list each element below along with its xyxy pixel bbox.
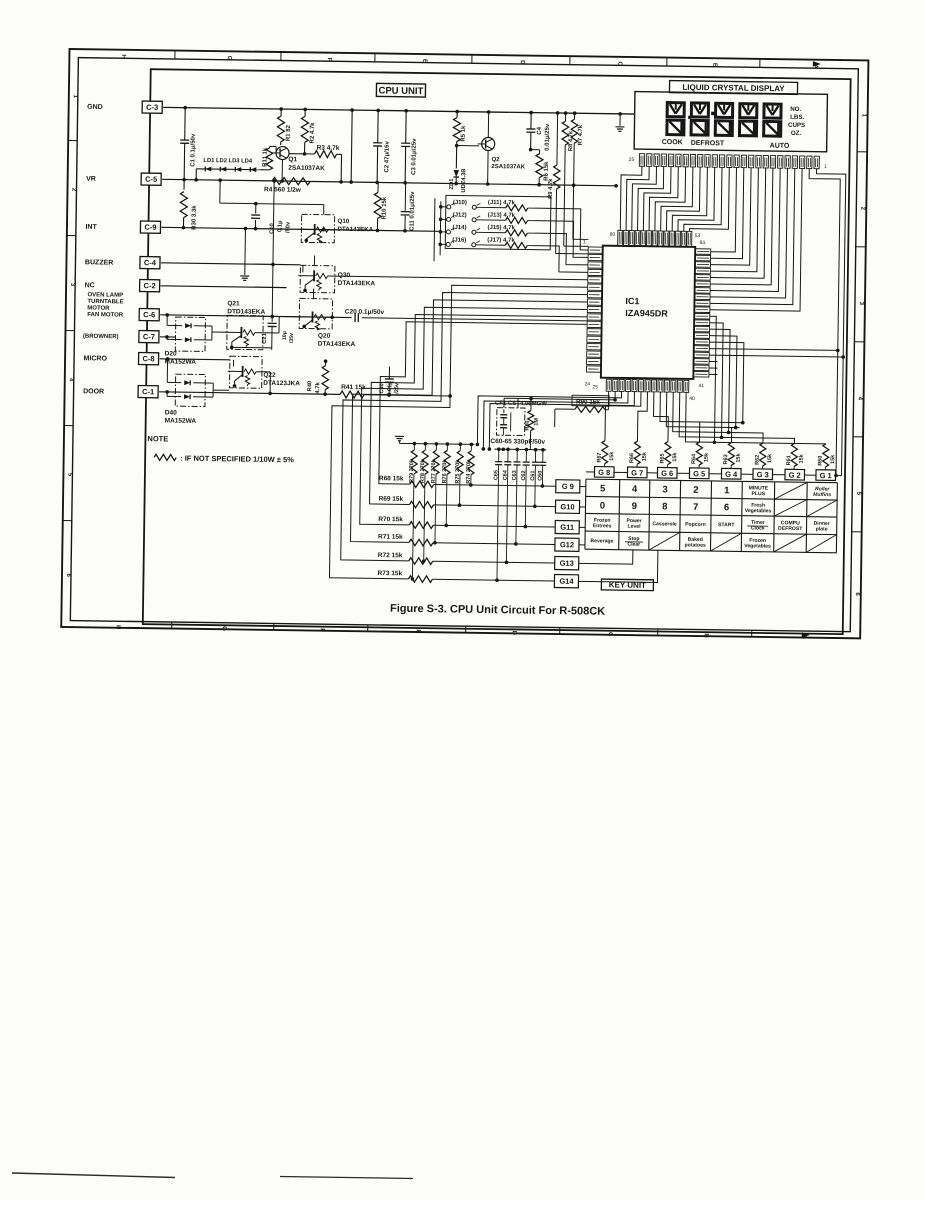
svg-text:G 6: G 6 — [661, 469, 673, 478]
svg-text:(J11) 4.7k: (J11) 4.7k — [488, 200, 516, 206]
svg-text:DTD143EKA: DTD143EKA — [227, 308, 265, 316]
svg-text:AUTO: AUTO — [770, 143, 790, 150]
svg-text:plate: plate — [816, 526, 828, 532]
svg-text:FAN MOTOR: FAN MOTOR — [87, 312, 124, 319]
svg-text:25: 25 — [592, 385, 598, 391]
svg-text:1: 1 — [724, 485, 730, 496]
svg-text:R8 4.7k: R8 4.7k — [568, 130, 574, 151]
svg-text:1: 1 — [824, 164, 827, 170]
svg-text:C4: C4 — [537, 126, 543, 134]
svg-text:R68 15k: R68 15k — [379, 475, 404, 482]
svg-text:PLUS: PLUS — [751, 491, 765, 497]
svg-text:1M: 1M — [534, 418, 540, 426]
svg-text:CPU UNIT: CPU UNIT — [378, 85, 423, 97]
svg-text:G 4: G 4 — [725, 470, 738, 479]
svg-text:R5 1k: R5 1k — [461, 125, 467, 142]
svg-text:C1 0.1μ/50v: C1 0.1μ/50v — [190, 133, 196, 167]
svg-text:G: G — [221, 626, 227, 631]
svg-text:C63: C63 — [512, 470, 518, 480]
svg-text:15k: 15k — [830, 454, 836, 464]
svg-text:G14: G14 — [559, 577, 574, 586]
svg-text:F: F — [326, 58, 332, 62]
svg-text:15k: 15k — [704, 452, 710, 462]
svg-text:Vegetables: Vegetables — [745, 508, 772, 514]
svg-text:NC: NC — [85, 282, 95, 289]
svg-text:41: 41 — [698, 383, 704, 389]
svg-text:TURNTABLE: TURNTABLE — [87, 299, 123, 306]
svg-text:Beverage: Beverage — [590, 538, 613, 544]
svg-text:LBS.: LBS. — [790, 114, 804, 121]
svg-text:0.1μ: 0.1μ — [277, 220, 283, 232]
svg-text:(J10): (J10) — [453, 200, 467, 206]
svg-text:(J13) 4.7k: (J13) 4.7k — [488, 212, 516, 218]
svg-text:9: 9 — [632, 501, 637, 512]
svg-text:G 2: G 2 — [789, 471, 801, 480]
svg-text:R10 15k: R10 15k — [382, 196, 388, 219]
svg-text:D: D — [511, 631, 517, 636]
svg-text:D20: D20 — [165, 350, 177, 357]
svg-text:CUPS: CUPS — [788, 122, 805, 129]
svg-text:C62: C62 — [521, 470, 527, 480]
svg-text:R60: R60 — [818, 456, 824, 466]
svg-text:C10: C10 — [269, 223, 275, 234]
svg-text:C-1: C-1 — [142, 387, 154, 396]
svg-text:G 5: G 5 — [693, 469, 705, 478]
svg-text:R78 270k: R78 270k — [420, 458, 426, 483]
svg-text:(BROWNER): (BROWNER) — [83, 334, 119, 341]
svg-text:R41 15k: R41 15k — [341, 384, 366, 391]
svg-text:G: G — [226, 56, 232, 61]
svg-text:/35v: /35v — [289, 333, 295, 343]
svg-text:7: 7 — [693, 502, 698, 513]
svg-text:IC1: IC1 — [625, 296, 639, 306]
svg-text:2: 2 — [693, 485, 698, 496]
svg-text:C60-65 330pF/50v: C60-65 330pF/50v — [490, 438, 545, 446]
svg-text:R71 15k: R71 15k — [378, 533, 403, 540]
svg-text:0.01μ/25v: 0.01μ/25v — [545, 123, 551, 151]
svg-text:C64: C64 — [503, 469, 509, 480]
svg-text:Clear: Clear — [627, 542, 640, 548]
svg-text:60: 60 — [610, 232, 616, 238]
svg-text:R77 270k: R77 270k — [431, 458, 437, 483]
svg-text:ZD1: ZD1 — [449, 178, 455, 190]
svg-text:BUZZER: BUZZER — [85, 259, 113, 266]
svg-text:START: START — [718, 522, 736, 528]
svg-text:R1 82: R1 82 — [286, 124, 292, 141]
svg-text:potatoes: potatoes — [685, 542, 706, 548]
svg-text:R64: R64 — [691, 453, 697, 464]
svg-text:VR: VR — [86, 176, 96, 183]
svg-text:IZA945DR: IZA945DR — [625, 308, 668, 319]
svg-text:E: E — [421, 59, 427, 63]
svg-text:C-3: C-3 — [146, 103, 158, 112]
svg-text:R74 270k: R74 270k — [466, 459, 472, 484]
svg-text:Q30: Q30 — [338, 272, 351, 279]
svg-text:/25v: /25v — [394, 382, 400, 394]
svg-text:R4 560 1/2w: R4 560 1/2w — [264, 186, 302, 194]
svg-text:15k: 15k — [736, 452, 742, 462]
svg-text:R6 15k: R6 15k — [544, 161, 550, 181]
svg-text:Q21: Q21 — [227, 300, 240, 307]
svg-text:B: B — [711, 63, 717, 68]
svg-text:(J12): (J12) — [453, 212, 467, 218]
svg-text:53: 53 — [695, 233, 701, 239]
svg-text:UDZ4.3B: UDZ4.3B — [461, 168, 467, 192]
svg-text:C-2: C-2 — [144, 281, 156, 290]
svg-text:R2 4.7k: R2 4.7k — [310, 122, 316, 144]
svg-text:C3 0.01μ/25v: C3 0.01μ/25v — [411, 138, 418, 175]
svg-text:(J15) 4.7k: (J15) 4.7k — [487, 225, 515, 231]
svg-text:E: E — [415, 629, 421, 633]
svg-text:Q10: Q10 — [338, 218, 350, 225]
svg-text:C60: C60 — [537, 471, 543, 481]
svg-text:R69 15k: R69 15k — [379, 496, 404, 503]
svg-text:6: 6 — [724, 502, 729, 513]
svg-text:64: 64 — [699, 240, 705, 246]
svg-text:15k: 15k — [767, 453, 773, 463]
svg-text:R40: R40 — [307, 381, 313, 392]
svg-text:KEY UNIT: KEY UNIT — [609, 580, 646, 590]
svg-text:C-9: C-9 — [144, 223, 156, 232]
svg-text:R9 4.7k: R9 4.7k — [548, 178, 554, 199]
svg-text:Casserole: Casserole — [652, 521, 677, 527]
svg-text:(J17) 4.7k: (J17) 4.7k — [487, 237, 515, 243]
svg-text:8: 8 — [662, 501, 667, 512]
svg-text:G 1: G 1 — [820, 471, 832, 480]
svg-text:R79 270k: R79 270k — [409, 458, 415, 483]
svg-text:0: 0 — [600, 501, 605, 512]
svg-text:R70 15k: R70 15k — [378, 516, 403, 523]
svg-text:Level: Level — [627, 524, 641, 530]
svg-text:Popcorn: Popcorn — [685, 522, 706, 528]
svg-text:15k: 15k — [609, 451, 615, 461]
svg-text:4.7k: 4.7k — [315, 381, 321, 393]
svg-text:INT: INT — [85, 224, 97, 231]
svg-text:R7 4.7k: R7 4.7k — [578, 124, 584, 145]
svg-text:G 3: G 3 — [757, 470, 769, 479]
svg-text:Q2: Q2 — [491, 157, 500, 163]
svg-text:MICRO: MICRO — [84, 355, 108, 362]
svg-text:R76 270k: R76 270k — [442, 459, 448, 484]
svg-text:B: B — [703, 633, 709, 638]
svg-text:DEFROST: DEFROST — [691, 140, 725, 147]
svg-text:C11 0.01μ/25v: C11 0.01μ/25v — [409, 191, 416, 231]
svg-text:25: 25 — [629, 157, 635, 163]
svg-text:LIQUID CRYSTAL DISPLAY: LIQUID CRYSTAL DISPLAY — [682, 83, 785, 93]
svg-text:R80: R80 — [525, 420, 531, 430]
svg-text:R62: R62 — [755, 455, 761, 465]
svg-text:3: 3 — [662, 484, 667, 495]
svg-text:DTA143EKA: DTA143EKA — [318, 341, 356, 349]
svg-text:10μ: 10μ — [282, 331, 288, 340]
svg-text:LD1 LD2 LD3 LD4: LD1 LD2 LD3 LD4 — [203, 158, 252, 165]
svg-text:R30 3.3k: R30 3.3k — [191, 205, 197, 230]
svg-text:R61: R61 — [786, 455, 792, 465]
svg-text:OVEN LAMP: OVEN LAMP — [87, 292, 123, 299]
svg-text:Muffins: Muffins — [813, 492, 831, 498]
svg-text:NO.: NO. — [790, 106, 801, 113]
svg-text:Q20: Q20 — [318, 333, 331, 340]
svg-text:OZ.: OZ. — [791, 130, 802, 137]
svg-text:R72 15k: R72 15k — [378, 552, 403, 559]
svg-text:Q22: Q22 — [263, 372, 276, 379]
svg-text:DTA143EKA: DTA143EKA — [337, 226, 373, 234]
svg-text:R65: R65 — [660, 453, 666, 463]
svg-text:G 9: G 9 — [562, 482, 574, 491]
svg-text:4: 4 — [632, 484, 638, 495]
svg-text:G13: G13 — [560, 559, 574, 568]
svg-text:G10: G10 — [560, 502, 574, 511]
svg-text:G 7: G 7 — [631, 468, 643, 477]
svg-text:R3 4.7k: R3 4.7k — [317, 145, 340, 152]
svg-text:F: F — [319, 628, 325, 632]
svg-text:C2 47μ/16v: C2 47μ/16v — [384, 140, 390, 172]
svg-text:15k: 15k — [672, 452, 678, 462]
svg-text:C65: C65 — [493, 470, 499, 480]
svg-text:DEFROST: DEFROST — [778, 526, 803, 532]
svg-text:C20 0.1μ/50v: C20 0.1μ/50v — [345, 308, 385, 316]
svg-text:C-4: C-4 — [144, 258, 157, 267]
svg-text:DTA143EKA: DTA143EKA — [338, 280, 376, 288]
svg-text:R63: R63 — [723, 454, 729, 464]
svg-text:GND: GND — [87, 104, 103, 111]
svg-text:C21: C21 — [262, 332, 268, 343]
svg-text:: IF NOT SPECIFIED 1/10W ± 5%: : IF NOT SPECIFIED 1/10W ± 5% — [180, 454, 294, 465]
svg-text:MA152WA: MA152WA — [165, 417, 197, 424]
svg-text:C61: C61 — [530, 471, 536, 481]
svg-text:C-6: C-6 — [143, 310, 155, 319]
svg-text:R67: R67 — [597, 452, 603, 462]
svg-text:Entrees: Entrees — [593, 523, 612, 529]
svg-text:2SA1037AK: 2SA1037AK — [491, 164, 525, 170]
svg-text:NOTE: NOTE — [147, 434, 168, 443]
svg-text:C: C — [607, 632, 613, 637]
svg-text:Vegetables: Vegetables — [744, 543, 771, 549]
svg-text:H: H — [115, 625, 121, 629]
svg-text:Q1: Q1 — [288, 156, 297, 163]
svg-text:D40: D40 — [165, 409, 177, 416]
svg-text:DOOR: DOOR — [83, 388, 104, 395]
svg-text:R11 1k: R11 1k — [262, 147, 268, 167]
svg-text:MOTOR: MOTOR — [87, 305, 110, 311]
svg-text:2SA1037AK: 2SA1037AK — [288, 165, 325, 173]
svg-text:(J14): (J14) — [452, 225, 466, 231]
svg-text:C-8: C-8 — [142, 354, 154, 363]
svg-text:15k: 15k — [642, 451, 648, 461]
svg-text:G 8: G 8 — [598, 468, 610, 477]
svg-text:C: C — [616, 61, 622, 66]
svg-text:C-5: C-5 — [145, 175, 157, 184]
svg-text:/50v: /50v — [285, 221, 291, 233]
svg-text:G12: G12 — [560, 540, 574, 549]
svg-text:C-7: C-7 — [143, 332, 155, 341]
svg-text:R66: R66 — [629, 453, 635, 463]
svg-text:COOK: COOK — [662, 139, 683, 146]
svg-text:H: H — [120, 54, 126, 58]
svg-text:1: 1 — [583, 239, 586, 245]
svg-text:R75 270k: R75 270k — [455, 459, 461, 484]
svg-text:5: 5 — [600, 483, 606, 494]
svg-text:D: D — [519, 60, 525, 65]
svg-text:G11: G11 — [560, 523, 574, 532]
svg-text:15k: 15k — [799, 453, 805, 463]
svg-text:R73 15k: R73 15k — [377, 570, 402, 577]
svg-text:(J16): (J16) — [452, 237, 466, 243]
svg-text:40: 40 — [689, 396, 695, 402]
svg-text:DTA123JKA: DTA123JKA — [263, 380, 300, 388]
svg-text:24: 24 — [584, 381, 590, 387]
